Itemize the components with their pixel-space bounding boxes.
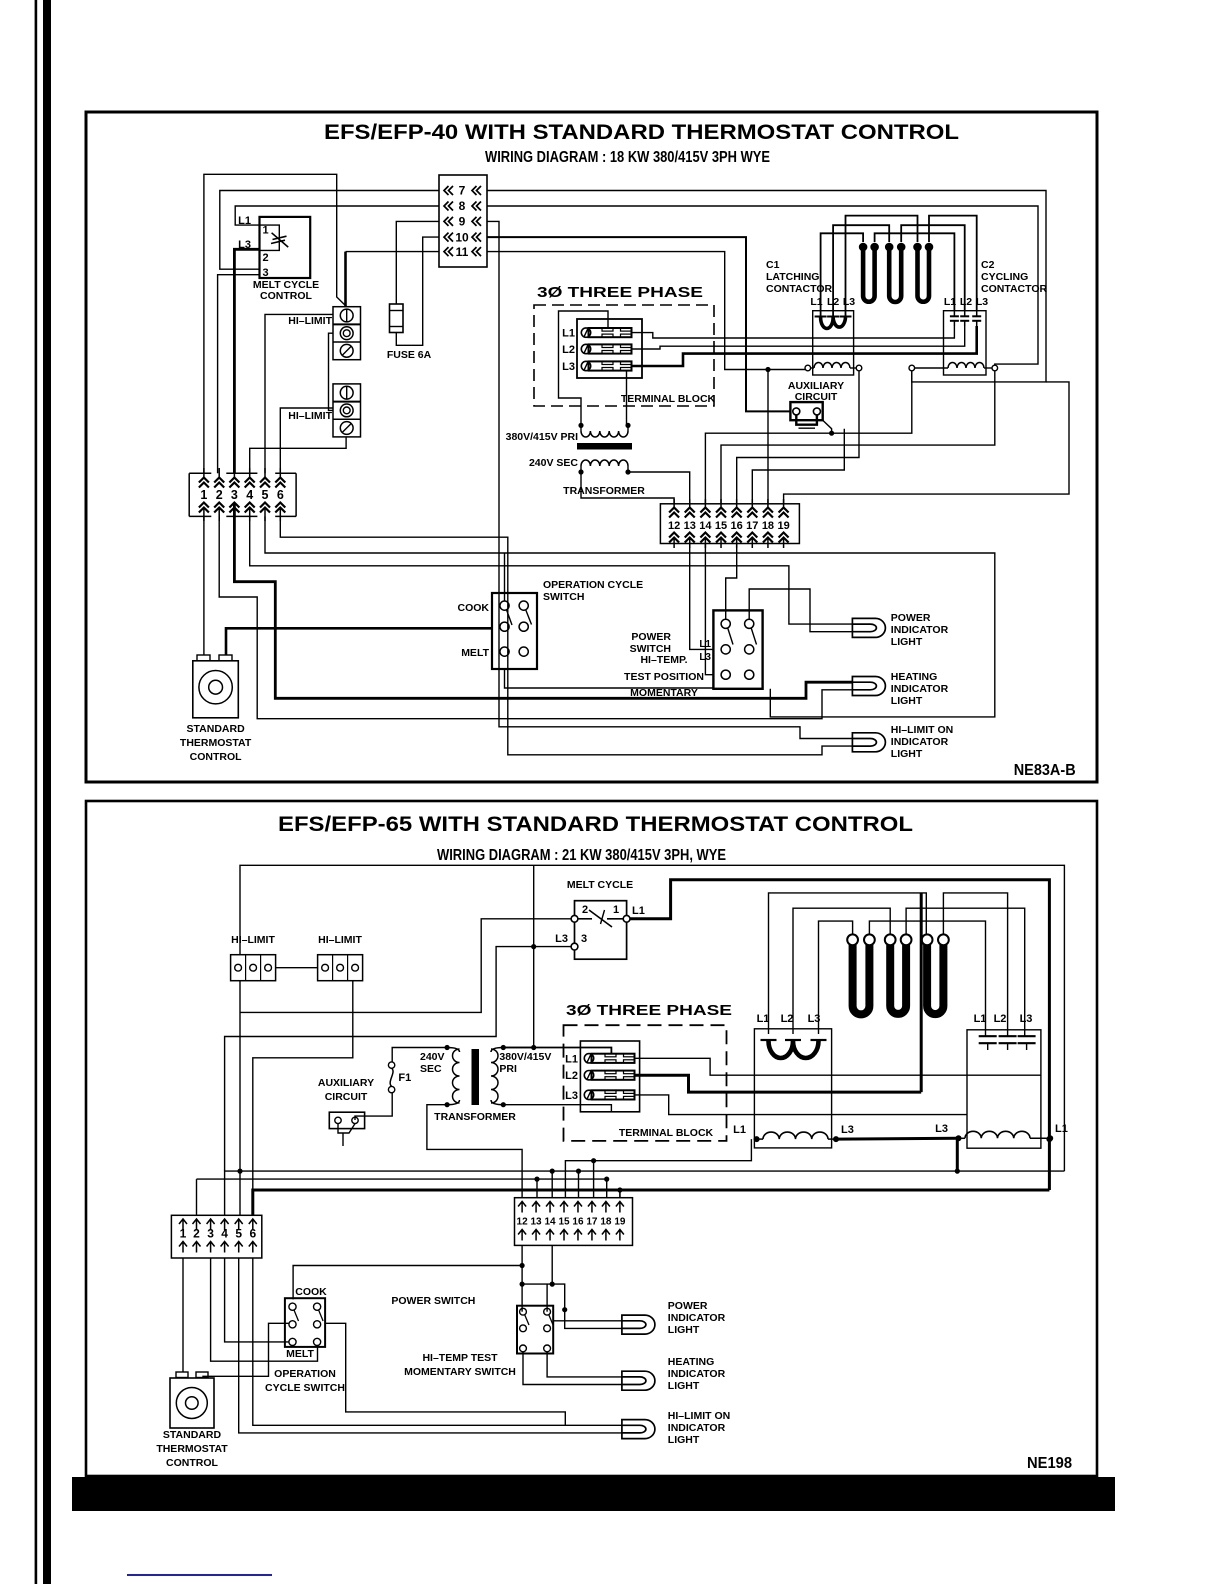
wire: sec bottom to strip 12 [427,1105,522,1198]
hi-limit switch 1 (upper) [333,307,361,360]
svg-text:L3: L3 [562,361,575,373]
hi-limit on indicator light [852,733,885,752]
wire: power switch right to power light 2 [553,1320,622,1322]
strip2 terminal 12 [518,1202,526,1213]
strip terminal 3 [233,468,235,478]
svg-text:F1: F1 [398,1072,411,1084]
wire: fuse L2 out to C2 cap 2 [631,326,965,349]
melt cycle control box [260,217,311,278]
wire: strip 2 to heating light lower lead [219,516,852,718]
strip2 terminal 6 [249,1219,257,1230]
wire: terminal block top to transformer primary left [559,311,609,424]
contactor 2L box [754,1029,831,1148]
svg-text:POWER SWITCH: POWER SWITCH [391,1295,475,1307]
wire: fuse L1 out to C2 cap 1 [631,326,954,338]
svg-text:L2: L2 [565,1070,578,1082]
svg-text:INDICATOR: INDICATOR [668,1368,726,1380]
wire: power switch bottoms to heating light 2 [523,1352,622,1385]
svg-text:L3: L3 [808,1013,821,1025]
terminal block solid box [577,319,642,378]
wire: strip 18 riser to coil feed [767,370,769,504]
auxiliary circuit diagonal to fan [823,420,832,433]
svg-text:3: 3 [207,1227,214,1241]
svg-text:1: 1 [180,1227,187,1241]
svg-text:COOK: COOK [295,1286,327,1298]
strip terminal 14 [704,499,706,509]
svg-text:MELT: MELT [286,1348,314,1360]
strip terminal 19 [783,499,785,509]
svg-text:1: 1 [613,904,619,916]
wire: cook to power switch 2 [293,1266,522,1300]
contactor C1 coil [805,365,811,371]
svg-text:5: 5 [262,488,269,502]
svg-text:HI–LIMIT: HI–LIMIT [231,934,275,946]
svg-text:SWITCH: SWITCH [543,591,584,603]
wire: element 2 to C2 cap 1 [869,921,985,1036]
svg-text:17: 17 [746,520,758,532]
svg-text:L3: L3 [565,1090,578,1102]
wire: fuse bottom to connector 10 [396,237,439,345]
svg-text:INDICATOR: INDICATOR [668,1312,726,1324]
wire: connector 11 to C1 coil left [487,252,805,370]
wire: element 6 to C2 cap 2 (thick vertical) [943,893,1007,1036]
fuse 6A [390,304,404,333]
svg-text:15: 15 [715,520,727,532]
bus A: outer loop to strip 4 [225,1171,1065,1215]
hi-limit switch 2 (lower) [333,384,361,437]
svg-text:FUSE 6A: FUSE 6A [387,349,432,361]
heating elements group [863,247,875,302]
terminal block solid box 2 [580,1041,639,1112]
svg-text:POWER: POWER [631,631,671,643]
svg-text:CONTACTOR: CONTACTOR [766,283,833,295]
svg-text:2: 2 [193,1227,200,1241]
wire: contactor L3 feed to element 1 [819,921,853,1034]
svg-text:12: 12 [668,520,680,532]
wire: inter-coil thick link [836,1137,959,1141]
auxiliary circuit box [790,402,822,420]
svg-text:L2: L2 [960,296,972,308]
heating indicator light [852,677,885,696]
svg-text:L1: L1 [733,1124,746,1136]
page left thin rule [35,0,38,1584]
power indicator light 2 [622,1315,655,1334]
strip terminal 1 [203,468,205,478]
svg-text:HEATING: HEATING [891,671,937,683]
strip2 terminal 18 [602,1202,610,1213]
wire: strip 14 into power switch L3 [705,544,713,675]
strip2 terminal 15 [560,1202,568,1213]
svg-text:MOMENTARY SWITCH: MOMENTARY SWITCH [404,1366,516,1378]
terminal block dashed outline [534,305,714,406]
wire: contactor L1 feed to element 5 [769,893,927,1034]
svg-text:INDICATOR: INDICATOR [891,683,949,695]
transformer coils [578,423,583,428]
strip terminal 13 [689,499,691,509]
contactor 2R coil [956,1135,962,1141]
melt cycle contact blade [578,918,592,920]
wire: strip 3 to heating light upper lead (thick) [234,516,852,698]
svg-text:14: 14 [699,520,712,532]
wire: F1 to auxiliary circuit [355,1093,392,1120]
svg-text:3: 3 [581,933,587,945]
strip2 terminal 16 [574,1202,582,1213]
svg-text:HI–LIMIT: HI–LIMIT [288,410,332,422]
wire: pri bottom to fuse L3 side [503,1105,611,1112]
svg-text:LIGHT: LIGHT [891,636,923,648]
fuse F1 [388,1062,394,1068]
wire: melt terminal 3 to bus A left riser [225,947,571,1172]
wire: cook contact stub [504,553,506,601]
svg-text:INDICATOR: INDICATOR [891,624,949,636]
svg-text:L2: L2 [562,344,575,356]
wire: fuse top to connector 9 [396,221,439,304]
strip2 terminal 19 [616,1202,624,1213]
svg-text:18: 18 [762,520,774,532]
contactor C2 coil [909,365,915,371]
wire: strip2-12 down to power switch [521,1245,523,1311]
svg-text:L1: L1 [1055,1123,1068,1135]
page left thick rule [43,0,51,1584]
svg-text:C2: C2 [981,259,995,271]
wire: connector 8 to melt cycle 1 [235,206,439,225]
hi-limit on indicator light 2 [622,1420,655,1439]
contactor 2R capacitor contacts [979,1035,997,1037]
wire: strip 4 to hi-limit 2 bottom [250,437,346,473]
auxiliary circuit bottom link [796,415,817,425]
svg-text:L1: L1 [944,296,956,308]
transformer 2 coils [445,1045,450,1050]
melt cycle box [575,901,627,960]
contactor 2L arc contacts [761,1039,777,1041]
svg-text:TRANSFORMER: TRANSFORMER [563,485,645,497]
wire: outer loop hi-limit A top to right side [240,865,1064,1171]
frame: diagram 2 border [86,801,1097,1476]
svg-text:L3: L3 [555,933,568,945]
svg-text:HI–LIMIT ON: HI–LIMIT ON [891,724,953,736]
element interconnect wires [846,216,918,316]
wire: melt L1 thick loop to C2 right vertical [630,880,1049,1190]
wire: connector 7 to melt cycle 3 [220,191,439,270]
svg-text:THERMOSTAT: THERMOSTAT [156,1443,228,1455]
svg-text:13: 13 [531,1217,543,1228]
heating elements group 2 [853,945,870,1014]
svg-text:5: 5 [235,1227,242,1241]
svg-text:CONTROL: CONTROL [260,290,312,302]
contactor C1 arc contacts [815,316,827,318]
svg-text:19: 19 [777,520,789,532]
wire: contactor L2 feed to element 3 [793,908,890,1034]
wire: melt cycle 3 to strip terminal 2 [218,275,260,474]
svg-text:OPERATION: OPERATION [274,1368,336,1380]
svg-text:POWER: POWER [668,1300,708,1312]
svg-text:HI–LIMIT: HI–LIMIT [288,315,332,327]
wire: connector 7 to C2 coil left (outer top loop) [487,191,1046,382]
wire: mid bus at power switch [522,1284,622,1328]
wire: strip 5 to hi-limit 1 left [265,314,333,473]
bus B: to strips 13 and 18 [197,1179,607,1198]
terminal block dashed outline 2 [564,1025,727,1141]
standard thermostat control 2 [170,1378,214,1428]
strip terminal 16 [736,499,738,509]
wire: strip 13 to transformer sec right [628,472,690,504]
wire: power switch 2 top-right riser [546,1284,548,1312]
svg-text:13: 13 [684,520,696,532]
svg-text:WIRING DIAGRAM : 21 KW 380/41: WIRING DIAGRAM : 21 KW 380/415V 3PH, WYE [437,847,726,864]
svg-text:16: 16 [731,520,743,532]
svg-text:3: 3 [262,267,268,279]
wire: connector 8 to C2 coil right [487,206,1038,365]
svg-text:3Ø THREE PHASE: 3Ø THREE PHASE [566,1002,732,1019]
svg-text:9: 9 [459,215,466,229]
svg-text:L1: L1 [757,1013,770,1025]
svg-text:17: 17 [586,1217,598,1228]
svg-text:2: 2 [216,488,223,502]
wire: strip 16 riser to bus A [578,1171,580,1198]
wire: strip 15 to C2 coil right [721,371,995,504]
terminal strip 1-6 [188,473,190,516]
svg-text:2: 2 [262,252,268,264]
svg-text:TERMINAL BLOCK: TERMINAL BLOCK [621,393,716,405]
svg-text:LIGHT: LIGHT [891,748,923,760]
wire: strip 17 to fan elbow [752,429,844,504]
wire: loop thermostat to hi-limit 1 top [204,174,347,473]
wire: hi-limit interlink [329,333,334,410]
svg-text:INDICATOR: INDICATOR [668,1422,726,1434]
wire: strip 6 to hi-limit 2 middle [280,408,333,473]
wire: hi-limit A to B link [276,967,318,969]
wire: strip 17 riser [593,1161,595,1198]
svg-text:MELT CYCLE: MELT CYCLE [567,879,633,891]
wire: strip1 to thermostat left tab [203,516,205,655]
wire: strip2-14 drop [551,1245,553,1284]
svg-text:10: 10 [455,230,469,244]
wire: hi-limit 1 top drop (row 11 tap) [346,251,440,253]
strip terminal 2 [218,468,220,478]
contactor 2L coil [754,1136,760,1142]
svg-text:240V: 240V [420,1051,445,1063]
svg-text:HI–TEMP.: HI–TEMP. [640,654,687,666]
svg-text:NE198: NE198 [1027,1455,1072,1472]
svg-text:380V/415V PRI: 380V/415V PRI [506,431,578,443]
svg-text:L3: L3 [843,296,855,308]
wire: coil drop to lower bus [956,1138,959,1171]
svg-text:LATCHING: LATCHING [766,271,819,283]
svg-text:TERMINAL BLOCK: TERMINAL BLOCK [619,1127,714,1139]
svg-text:L2: L2 [781,1013,794,1025]
svg-text:NE83A-B: NE83A-B [1014,762,1076,779]
wire: pri top to fuse L1 [503,1048,611,1055]
svg-text:380V/415V: 380V/415V [499,1051,551,1063]
strip2 terminal 4 [221,1219,229,1230]
svg-text:4: 4 [246,488,253,502]
svg-text:L3: L3 [935,1123,948,1135]
svg-text:3Ø THREE PHASE: 3Ø THREE PHASE [537,284,703,301]
svg-text:HI–TEMP TEST: HI–TEMP TEST [422,1352,498,1364]
svg-text:L3: L3 [976,296,988,308]
wire: strip2-6 to hi-limit light 2 upper [253,1258,622,1425]
strip2 terminal 13 [532,1202,540,1213]
frame: diagram 1 border [86,112,1097,782]
wire: element 4 to C2 cap 3 [906,908,1025,1036]
contactor C1 box [813,311,854,375]
bottom black band [72,1477,1115,1511]
wire: melt terminal 2 to hi-limit A drop [240,919,571,1013]
svg-text:6: 6 [277,488,284,502]
hi-limit switch B (diagram 2) [318,955,363,981]
svg-text:LIGHT: LIGHT [891,695,923,707]
connector block terminals 7-11 [439,175,487,267]
contactor C2 capacitor contacts [953,311,955,316]
wire: strip 4 to power light upper lead [250,516,853,624]
wire: op switch bottom to power switch bottom [505,669,714,688]
svg-text:SEC: SEC [420,1063,442,1075]
svg-text:WIRING DIAGRAM : 18 KW 380/41: WIRING DIAGRAM : 18 KW 380/415V 3PH WYE [485,149,770,166]
terminal strip 12-19 [660,504,799,544]
svg-text:L3: L3 [841,1124,854,1136]
strip terminal 4 [249,468,251,478]
svg-text:L1: L1 [562,328,575,340]
auxiliary circuit 2 bottom wires [338,1124,355,1133]
svg-text:LIGHT: LIGHT [668,1434,700,1446]
wire: thermostat right tab to operation switch (thick) [226,628,492,655]
svg-text:CIRCUIT: CIRCUIT [325,1091,368,1103]
strip2 terminal 3 [207,1219,215,1230]
terminal strip 12-19 (2) [515,1198,633,1246]
wire: bus B drop strip 13 [536,1179,538,1198]
svg-text:7: 7 [459,184,466,198]
contactor C2 box [944,311,987,375]
svg-text:CONTROL: CONTROL [190,751,242,763]
strip terminal 12 [673,499,675,509]
auxiliary circuit 2 box [329,1112,364,1128]
wire: strip2-4 to op switch bottom-left [225,1258,289,1342]
svg-text:POWER: POWER [891,612,931,624]
power switch levers [728,628,733,645]
svg-text:12: 12 [517,1217,529,1228]
power switch 2 box [517,1306,553,1354]
svg-text:AUXILIARY: AUXILIARY [318,1077,374,1089]
svg-text:MOMENTARY: MOMENTARY [630,687,698,699]
strip terminal 6 [279,468,281,478]
wire: strip 19 outer loop to C2 [784,382,1069,504]
svg-text:CONTROL: CONTROL [166,1457,218,1469]
strip terminal 17 [751,499,753,509]
wire: strip 16 into power switch top left [726,544,737,620]
wire: melt cycle L3 to strip terminal 3 (thick) [234,249,259,473]
wire: op switch mid-right to hi-limit light riser [325,1323,566,1425]
wire: fuse2 L1 out [634,1058,1041,1075]
wire: terminal block bottom to transformer primary right [626,371,628,424]
svg-text:18: 18 [600,1217,612,1228]
heating indicator light 2 [622,1371,655,1390]
svg-text:6: 6 [249,1227,256,1241]
operation cycle switch levers [507,610,513,625]
svg-text:C1: C1 [766,259,780,271]
svg-text:16: 16 [572,1217,584,1228]
svg-text:STANDARD: STANDARD [163,1429,222,1441]
wire: strip2-3 to op switch bottom-right [211,1258,318,1361]
svg-text:4: 4 [221,1227,228,1241]
svg-text:MELT: MELT [461,647,489,659]
svg-text:COOK: COOK [458,602,490,614]
hi-limit switch A (diagram 2) [231,955,276,981]
svg-text:L1: L1 [565,1053,578,1065]
operation cycle switch box [492,593,537,669]
svg-text:11: 11 [456,245,469,259]
svg-text:TRANSFORMER: TRANSFORMER [434,1111,516,1123]
svg-text:1: 1 [262,225,268,237]
svg-text:L1: L1 [974,1013,987,1025]
svg-text:CYCLING: CYCLING [981,271,1028,283]
svg-text:19: 19 [614,1217,626,1228]
wire: strip 12 to transformer sec left [581,472,674,504]
wire: thermostat2 right tab to op switch 2 mid-left [203,1323,289,1378]
svg-text:HI–LIMIT: HI–LIMIT [318,934,362,946]
strip2 terminal 17 [588,1202,596,1213]
blue footer link rule [127,1574,272,1576]
wire: pri junction up to melt and outer line [533,865,535,1047]
svg-text:HI–LIMIT ON: HI–LIMIT ON [668,1410,730,1422]
svg-text:THERMOSTAT: THERMOSTAT [180,737,252,749]
strip terminal 5 [264,468,266,478]
svg-text:2: 2 [582,904,588,916]
wire: fuse2 L2 out thick [634,1075,921,1092]
strip2 terminal 5 [235,1219,243,1230]
svg-text:L2: L2 [827,296,839,308]
svg-text:TEST POSITION: TEST POSITION [624,671,704,683]
bus C thick: strip 6 to C2 vertical [253,1190,1050,1215]
power switch box [713,610,762,688]
svg-text:L1: L1 [632,905,645,917]
svg-text:PRI: PRI [499,1063,517,1075]
wire: strip2-5 to hi-limit light 2 lower [239,1258,622,1433]
svg-text:14: 14 [544,1217,556,1228]
contactor 2R box [967,1030,1041,1148]
wire: strip 3 thick stub through [233,504,236,517]
svg-text:EFS/EFP-65 WITH STANDARD THERM: EFS/EFP-65 WITH STANDARD THERMOSTAT CONT… [278,813,913,836]
svg-text:EFS/EFP-40 WITH STANDARD THERM: EFS/EFP-40 WITH STANDARD THERMOSTAT CONT… [324,121,959,144]
strip terminal 15 [720,499,722,509]
wire: strip 6 to hi-limit light lower lead [280,516,852,754]
power indicator light [852,618,885,637]
strip2 terminal 1 [179,1219,187,1230]
svg-text:LIGHT: LIGHT [668,1324,700,1336]
operation cycle switch 2 box [285,1298,325,1347]
svg-text:HEATING: HEATING [668,1356,714,1368]
svg-text:STANDARD: STANDARD [187,723,246,735]
svg-text:INDICATOR: INDICATOR [891,736,949,748]
wire: bus C drop strip 19 [619,1190,621,1198]
wire: hi-limit B right to bus C riser [253,981,353,1190]
svg-text:8: 8 [459,199,466,213]
wire: strip 14 to C2 coil left [705,371,911,504]
wire: strip 5 to cook row and right drop [265,516,995,717]
wire: strip 15 to coil L1 riser [565,1139,751,1198]
wire: connector 10 to auxiliary circuit (thick) [487,237,790,411]
strip2 terminal 14 [546,1202,554,1213]
svg-text:L1: L1 [810,296,822,308]
wire: strip 13 into power switch L1 [690,544,714,650]
wire: hi-limit A left drop to strip 5 [239,981,241,1216]
wire: sec top to F1 [392,1048,447,1062]
terminal strip 1-6 (2) [171,1215,261,1258]
wire: fuse L2 thick riser [920,893,923,1092]
strip2 terminal 2 [193,1219,201,1230]
svg-text:240V SEC: 240V SEC [529,457,578,469]
wire: fuse L3 out to C2 cap 3 (thick) [631,326,977,366]
svg-text:L2: L2 [994,1013,1007,1025]
